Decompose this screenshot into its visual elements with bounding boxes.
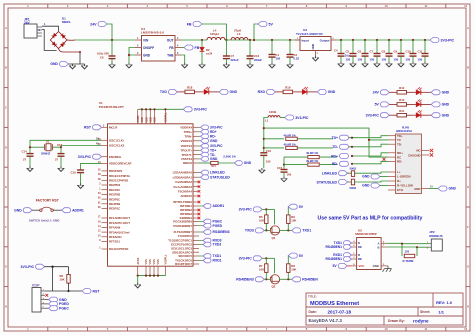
- ground at C7: [374, 62, 380, 67]
- svg-text:C9: C9: [394, 50, 398, 54]
- net GND flag at switch: [14, 208, 32, 213]
- svg-text:T0CKIRA4: T0CKIRA4: [178, 189, 193, 193]
- svg-text:49.9R 1%: 49.9R 1%: [306, 151, 319, 155]
- svg-text:R-YELLOW: R-YELLOW: [397, 184, 413, 188]
- net 3V3-PIC at VDDRX4: [199, 126, 201, 128]
- svg-text:3V3-PIC: 3V3-PIC: [295, 116, 309, 120]
- svg-text:RE3P3C: RE3P3C: [109, 197, 121, 201]
- MCU U1 PIC18F97J60-I/PT: [108, 124, 194, 266]
- svg-text:SN65HVD1786P: SN65HVD1786P: [355, 232, 377, 236]
- svg-text:D: D: [467, 145, 469, 149]
- wire to resistor R10: [389, 103, 397, 105]
- svg-text:10: 10: [385, 327, 389, 331]
- wire LED to GND: [421, 103, 431, 105]
- wire RD- row: [283, 164, 285, 166]
- net RS485EN flag: [292, 277, 319, 282]
- net FB flag at pin4: [182, 47, 185, 49]
- net PGED flag: [199, 225, 203, 227]
- net 3V3-PIC flag at Q2: [239, 256, 263, 261]
- RJ45 NC pins with x-marks: [422, 151, 428, 156]
- svg-text:X1: X1: [46, 140, 50, 144]
- svg-text:DE: DE: [358, 245, 362, 249]
- resistor R19: [283, 90, 293, 94]
- svg-text:RD-: RD-: [210, 134, 216, 138]
- wire U2 B to JP2: [387, 246, 430, 248]
- bridge rectifier D1 MB2S: [50, 32, 80, 53]
- wire to LED: [194, 91, 203, 93]
- svg-text:TXD3: TXD3: [245, 229, 254, 233]
- wire TAB to ground: [182, 55, 185, 63]
- resistor R-TERM 120: [404, 254, 415, 257]
- svg-text:VIN: VIN: [143, 38, 149, 42]
- U1 top VDD pins: [138, 109, 166, 124]
- svg-text:OUT: OUT: [167, 38, 174, 42]
- wire B to R-TERM: [416, 247, 418, 256]
- svg-text:VDDPLL: VDDPLL: [164, 112, 168, 123]
- svg-text:T1CKIRC0: T1CKIRC0: [178, 234, 193, 238]
- net GND at VSSTX4: [199, 158, 201, 160]
- svg-text:VSS: VSS: [152, 259, 156, 264]
- svg-text:E: E: [5, 185, 7, 189]
- svg-text:EasyEDA V4.7.3: EasyEDA V4.7.3: [309, 318, 343, 323]
- svg-text:5V: 5V: [299, 205, 304, 209]
- wire LED to GND: [209, 91, 219, 93]
- svg-text:1/1: 1/1: [438, 309, 444, 314]
- svg-text:MCLR: MCLR: [109, 125, 118, 129]
- wire R8 to 5V: [287, 256, 289, 264]
- svg-text:VSS: VSS: [144, 259, 148, 264]
- net STATUSLED flag near RJ45: [317, 180, 348, 185]
- svg-text:Use same 5V Part as MLP for co: Use same 5V Part as MLP for compatibilit…: [318, 216, 423, 222]
- svg-text:G: G: [5, 265, 7, 269]
- svg-text:RE2P2B: RE2P2B: [109, 193, 120, 197]
- ground at C8: [386, 62, 392, 67]
- ground at U4: [126, 63, 132, 68]
- wire R9 to 5V: [287, 207, 289, 215]
- LED at 3V3-PIC row: [416, 110, 422, 118]
- svg-text:R12: R12: [399, 86, 405, 90]
- wire LED to GND: [421, 91, 431, 93]
- resistor R6 10K: [67, 275, 70, 284]
- LED at TXD row: [204, 87, 210, 95]
- svg-text:FB: FB: [187, 22, 192, 26]
- ground at C16: [259, 168, 265, 173]
- svg-text:49.9R 1%: 49.9R 1%: [284, 143, 297, 147]
- net RD- inline flag: [353, 161, 389, 163]
- svg-text:49.9R 1%: 49.9R 1%: [284, 134, 297, 138]
- svg-text:27: 27: [55, 158, 59, 162]
- wire LED to GND: [307, 91, 317, 93]
- svg-text:24V: 24V: [373, 91, 380, 95]
- ground at C17: [281, 177, 287, 182]
- svg-text:RF2AN7C1OUT: RF2AN7C1OUT: [109, 221, 130, 225]
- ground at C10: [410, 62, 416, 67]
- capacitor C14 27p: [27, 154, 34, 157]
- net GND flag: [431, 90, 450, 95]
- svg-text:ADDR1: ADDR1: [213, 204, 225, 208]
- svg-text:H: H: [5, 305, 7, 309]
- svg-text:R19: R19: [285, 86, 291, 90]
- net TXD3 flag: [245, 228, 264, 233]
- svg-text:RE: RE: [358, 257, 362, 261]
- net 3V3-PIC flag above U1: [183, 107, 207, 112]
- svg-text:GND: GND: [210, 139, 218, 143]
- net GND flag at L+: [362, 174, 380, 179]
- net RD+ flag: [199, 131, 201, 133]
- svg-text:TITLE:: TITLE:: [308, 295, 317, 299]
- wire 3V3 to R6 and ICSP: [45, 266, 69, 268]
- wire OSC1 to crystal: [30, 140, 102, 153]
- net RXD flag: [258, 89, 276, 94]
- net RS485EN3 flag: [199, 231, 203, 233]
- capacitor C12 220uF: [249, 39, 251, 41]
- net 3V3-PIC flag top rail: [430, 38, 454, 43]
- resistor R8 10K: [287, 272, 289, 279]
- inductor L3 27uH: [231, 37, 248, 40]
- svg-text:C: C: [467, 106, 469, 110]
- svg-text:RD0PSP0: RD0PSP0: [109, 169, 123, 173]
- svg-text:3V3-PIC: 3V3-PIC: [366, 113, 380, 117]
- svg-text:TXD3: TXD3: [213, 243, 222, 247]
- svg-text:24V: 24V: [90, 22, 97, 26]
- wire R6 to RST: [68, 283, 70, 291]
- svg-text:100: 100: [382, 58, 387, 62]
- net GND flag: [219, 89, 238, 94]
- net GND flag at ICSP: [45, 299, 49, 301]
- svg-text:C: C: [5, 106, 7, 110]
- svg-text:12: 12: [464, 327, 468, 331]
- svg-text:STATUSLED: STATUSLED: [317, 180, 338, 184]
- capacitor C17 100n: [283, 165, 285, 170]
- wire rail to RC pin: [369, 140, 388, 157]
- svg-text:GND: GND: [442, 103, 450, 107]
- svg-text:10K: 10K: [291, 268, 296, 272]
- svg-text:ONOFF: ONOFF: [143, 46, 154, 50]
- net TD+ flag: [199, 149, 201, 151]
- wire switch to ADDR1: [53, 209, 61, 211]
- svg-text:590Ω: 590Ω: [350, 167, 357, 171]
- connector JP1: [24, 24, 37, 38]
- RJ45 ETH GND pin: [422, 188, 430, 190]
- svg-text:RS485EN1: RS485EN1: [326, 257, 343, 261]
- ground at TAB: [182, 63, 188, 68]
- svg-text:RG4CCP5P1D: RG4CCP5P1D: [109, 247, 128, 251]
- svg-text:LM2576HVS-5.0: LM2576HVS-5.0: [141, 31, 164, 35]
- svg-text:GND: GND: [373, 264, 379, 268]
- svg-text:GND: GND: [244, 161, 252, 165]
- svg-text:B: B: [5, 66, 7, 70]
- svg-text:R-TERM: R-TERM: [403, 259, 415, 263]
- wire ICSP pin1 to RST: [45, 290, 82, 292]
- svg-text:TPIN+: TPIN+: [184, 130, 193, 134]
- svg-text:TXD1: TXD1: [302, 229, 311, 233]
- net GND flag at ETH GND: [438, 186, 456, 191]
- wire TD- row: [263, 147, 265, 149]
- svg-text:RD2CCP4P3D: RD2CCP4P3D: [109, 178, 128, 182]
- ground at C2: [287, 63, 293, 68]
- svg-text:RF5AN10CVref: RF5AN10CVref: [109, 230, 129, 234]
- svg-text:100: 100: [276, 57, 281, 61]
- svg-text:H: H: [467, 305, 469, 309]
- svg-text:Drawn By:: Drawn By:: [388, 319, 405, 323]
- svg-text:A: A: [5, 26, 7, 30]
- svg-text:RE2PD2: RE2PD2: [109, 183, 121, 187]
- svg-text:GND: GND: [230, 90, 238, 94]
- capacitor C10 100n: [412, 39, 414, 41]
- svg-text:Input: Input: [302, 39, 309, 43]
- svg-text:TD-: TD-: [332, 145, 338, 149]
- connector RJ45 HR911105A: [396, 134, 422, 194]
- diode D2 ss34: [201, 40, 203, 47]
- svg-text:TXD: TXD: [160, 90, 167, 94]
- net ADDR1 flag: [199, 205, 203, 207]
- wire JP1 to bridge AC1: [42, 26, 59, 31]
- svg-text:RF4AN9: RF4AN9: [109, 226, 121, 230]
- svg-text:VrefAN2RA2: VrefAN2RA2: [175, 180, 192, 184]
- ground aux: [82, 64, 88, 69]
- svg-text:C6: C6: [358, 50, 362, 54]
- ground at bridge: [70, 64, 76, 69]
- svg-text:2017-07-18: 2017-07-18: [328, 310, 352, 315]
- svg-text:100: 100: [418, 58, 423, 62]
- net RD- flag: [199, 135, 201, 137]
- svg-text:TD-: TD-: [397, 142, 402, 146]
- wire to LED: [407, 114, 416, 116]
- ground at C7: [223, 63, 229, 68]
- LED at 24V row: [416, 87, 422, 95]
- svg-text:R18: R18: [187, 86, 193, 90]
- net TXD1 flag: [292, 228, 312, 233]
- svg-text:VDDCOREVCAP: VDDCOREVCAP: [109, 162, 132, 166]
- wire center-tap rail: [264, 128, 388, 140]
- resistor R10: [397, 103, 407, 107]
- net GND flag at bridge: [50, 62, 68, 67]
- svg-text:0.33: 0.33: [294, 57, 300, 61]
- svg-text:R+: R+: [397, 179, 401, 183]
- svg-text:11: 11: [424, 327, 427, 331]
- wire R7 to source: [266, 272, 270, 279]
- svg-text:F: F: [467, 225, 469, 229]
- wire bridge plus to VIN: [75, 39, 135, 41]
- svg-text:OSC2CLK2: OSC2CLK2: [109, 144, 125, 148]
- svg-text:VSSRX4: VSSRX4: [181, 139, 193, 143]
- wire 5V flag to rail: [254, 24, 258, 40]
- svg-text:100: 100: [406, 58, 411, 62]
- ground at D2: [199, 63, 205, 68]
- net RXD1 flag: [199, 260, 203, 262]
- svg-text:RXD1: RXD1: [213, 259, 222, 263]
- wire 24V down to rail: [107, 24, 112, 40]
- svg-text:RD-: RD-: [397, 160, 402, 164]
- svg-text:TAB: TAB: [167, 53, 174, 57]
- net RS485EN1 flag at U2 DE: [326, 245, 352, 250]
- svg-text:RST: RST: [84, 126, 92, 130]
- net GND flag at R+: [362, 183, 380, 188]
- ground at C11: [422, 62, 428, 67]
- resistor 49.9R TD+: [286, 137, 298, 140]
- wire 3V3 rail U3 to flag: [336, 39, 430, 41]
- capacitor C16 100n: [260, 153, 267, 156]
- svg-text:10K: 10K: [259, 219, 264, 223]
- svg-text:PGDKBI3RB7: PGDKBI3RB7: [173, 224, 192, 228]
- svg-text:RX1DT1RC7: RX1DT1RC7: [175, 262, 192, 266]
- net TD- inline flag: [349, 144, 389, 147]
- crystal X1 25MHZ: [30, 146, 44, 148]
- svg-text:RST: RST: [93, 289, 101, 293]
- svg-text:C10: C10: [406, 50, 412, 54]
- ground at U3: [313, 56, 319, 61]
- svg-text:VDD: VDD: [140, 117, 144, 123]
- resistor R16 590R: [348, 172, 389, 173]
- svg-text:RS485EN1: RS485EN1: [326, 245, 343, 249]
- transceiver U2 SN65HVD1786P: [357, 238, 382, 270]
- svg-text:RE5P1C: RE5P1C: [109, 207, 121, 211]
- svg-text:GND: GND: [362, 175, 370, 179]
- resistor R5 10K: [265, 215, 268, 224]
- svg-text:CHSGND: CHSGND: [408, 153, 421, 157]
- svg-text:L-GREEN: L-GREEN: [397, 175, 411, 179]
- unconnected pin x-marks right: [198, 181, 201, 184]
- capacitor C8 100n: [388, 39, 390, 41]
- wire drain to RS485EN: [280, 278, 292, 280]
- ground at C4: [338, 62, 344, 67]
- capacitor C4 10u: [340, 39, 342, 41]
- svg-text:R10: R10: [399, 98, 405, 102]
- net TXD flag: [160, 89, 178, 94]
- ground at C12: [247, 63, 253, 68]
- svg-text:AVSS: AVSS: [136, 257, 140, 264]
- net RXD1 flag at U2 R: [333, 253, 351, 258]
- svg-text:MODBUS: MODBUS: [429, 234, 442, 238]
- capacitor C7 100n: [376, 39, 378, 41]
- svg-text:3V3-PIC: 3V3-PIC: [194, 108, 208, 112]
- capacitor C6 100n: [364, 39, 366, 41]
- net LINKLED flag near RJ45: [322, 171, 348, 176]
- capacitor C15 27p: [60, 147, 62, 153]
- svg-text:C16: C16: [266, 149, 272, 153]
- svg-text:RE4P3B: RE4P3B: [109, 202, 120, 206]
- svg-text:GND: GND: [449, 187, 457, 191]
- svg-text:VCC: VCC: [359, 264, 365, 268]
- svg-text:rodyne: rodyne: [413, 319, 429, 324]
- x-mark unused ICSP pin: [45, 294, 48, 297]
- svg-text:RF6AN11: RF6AN11: [109, 235, 122, 239]
- net 5V flag: [258, 22, 273, 27]
- svg-text:C15: C15: [57, 143, 63, 147]
- wire bridge minus down: [79, 52, 81, 64]
- wire 5V rail L4 to U3: [225, 39, 300, 41]
- svg-text:SWITCH 6x6x2.5_SMD: SWITCH 6x6x2.5_SMD: [29, 219, 60, 223]
- svg-text:C19: C19: [71, 170, 77, 174]
- svg-text:RS485EN: RS485EN: [302, 278, 318, 282]
- ground at C9: [398, 62, 404, 67]
- connector JP2 MODBUS: [431, 239, 442, 251]
- net 3V3-PIC flag at Q1: [239, 207, 263, 212]
- svg-text:25MHZ: 25MHZ: [41, 152, 50, 156]
- svg-text:RD1ECCP3P3A: RD1ECCP3P3A: [109, 174, 131, 178]
- svg-text:590Ω: 590Ω: [350, 186, 357, 190]
- svg-text:3V3-PIC: 3V3-PIC: [239, 257, 253, 261]
- wire 3V3 to R5 and gate: [262, 208, 274, 210]
- wire A to R-TERM: [401, 244, 403, 256]
- svg-text:LINKLED: LINKLED: [322, 171, 338, 175]
- svg-text:10K: 10K: [60, 278, 65, 282]
- svg-text:F: F: [5, 225, 7, 229]
- net 3V3-PIC flag at ICSP: [21, 264, 45, 269]
- net ADDR1 flag at switch: [62, 208, 84, 213]
- svg-text:GND: GND: [14, 208, 22, 212]
- net GND at VSSRX4: [199, 140, 201, 142]
- svg-text:Q1: Q1: [272, 236, 276, 240]
- svg-text:5V: 5V: [299, 254, 304, 258]
- LED at RXD row: [302, 87, 308, 95]
- svg-text:B: B: [377, 245, 379, 249]
- svg-text:100: 100: [287, 172, 292, 176]
- svg-text:GND: GND: [50, 62, 58, 66]
- transistor Q2: [270, 275, 280, 284]
- svg-text:VDDRX4: VDDRX4: [180, 125, 192, 129]
- svg-text:3V3-PIC: 3V3-PIC: [239, 208, 253, 212]
- svg-text:TPIN-: TPIN-: [184, 134, 192, 138]
- svg-text:FB: FB: [195, 46, 200, 50]
- x-mark RC pin: [383, 158, 386, 161]
- svg-text:PGEC: PGEC: [59, 306, 69, 310]
- net LINKLED flag: [199, 172, 201, 174]
- svg-text:FB: FB: [169, 46, 174, 50]
- wire to resistor R11: [389, 114, 397, 116]
- net TD- flag: [199, 154, 201, 156]
- resistor R18: [185, 90, 195, 94]
- svg-text:D: D: [5, 145, 7, 149]
- svg-text:MODBUS Ethernet: MODBUS Ethernet: [310, 301, 359, 307]
- svg-text:FACTORY RST: FACTORY RST: [36, 198, 59, 202]
- net RS485EN1 flag at U2 RE: [326, 257, 352, 262]
- switch S1: [40, 207, 54, 211]
- regulator U4 LM2576HVS-5.0: [142, 36, 176, 62]
- net FB flag top: [187, 22, 202, 27]
- svg-text:120: 120: [405, 250, 410, 254]
- svg-text:RF7SS1: RF7SS1: [109, 240, 120, 244]
- svg-text:27: 27: [23, 158, 27, 162]
- capacitor C5 100n: [352, 39, 354, 41]
- svg-text:L1: L1: [265, 119, 269, 123]
- net 3V3-PIC at VDDTX4: [199, 145, 201, 147]
- svg-text:OSC1CLKI: OSC1CLKI: [109, 138, 124, 142]
- net 5V flag at U2 VCC: [333, 263, 348, 268]
- svg-text:LINKLED: LINKLED: [210, 171, 225, 175]
- U1 bottom VSS pins: [138, 266, 166, 275]
- svg-text:RE1P2C: RE1P2C: [109, 188, 121, 192]
- svg-text:ENVREG: ENVREG: [109, 155, 122, 159]
- svg-text:Output: Output: [320, 39, 330, 43]
- ground at C14: [27, 167, 33, 172]
- svg-text:C4: C4: [334, 49, 338, 53]
- net 3V3-PIC flag at ENVREG: [78, 154, 102, 159]
- net 24V flag: [373, 90, 390, 95]
- wire RD+ row: [283, 157, 285, 165]
- capacitor C1 100: [271, 39, 273, 41]
- net PGEC flag: [199, 221, 203, 223]
- svg-text:RS485EN3: RS485EN3: [236, 278, 254, 282]
- net 24V flag: [90, 22, 107, 27]
- svg-text:TD+: TD+: [332, 136, 339, 140]
- svg-text:GND: GND: [442, 91, 450, 95]
- svg-text:VSSPLL: VSSPLL: [164, 254, 168, 265]
- svg-text:2.26K 1%: 2.26K 1%: [223, 154, 236, 158]
- ground at C6: [362, 62, 368, 67]
- svg-text:RF1AN6C2OUT: RF1AN6C2OUT: [109, 216, 130, 220]
- junction dots at inline flags: [351, 137, 353, 139]
